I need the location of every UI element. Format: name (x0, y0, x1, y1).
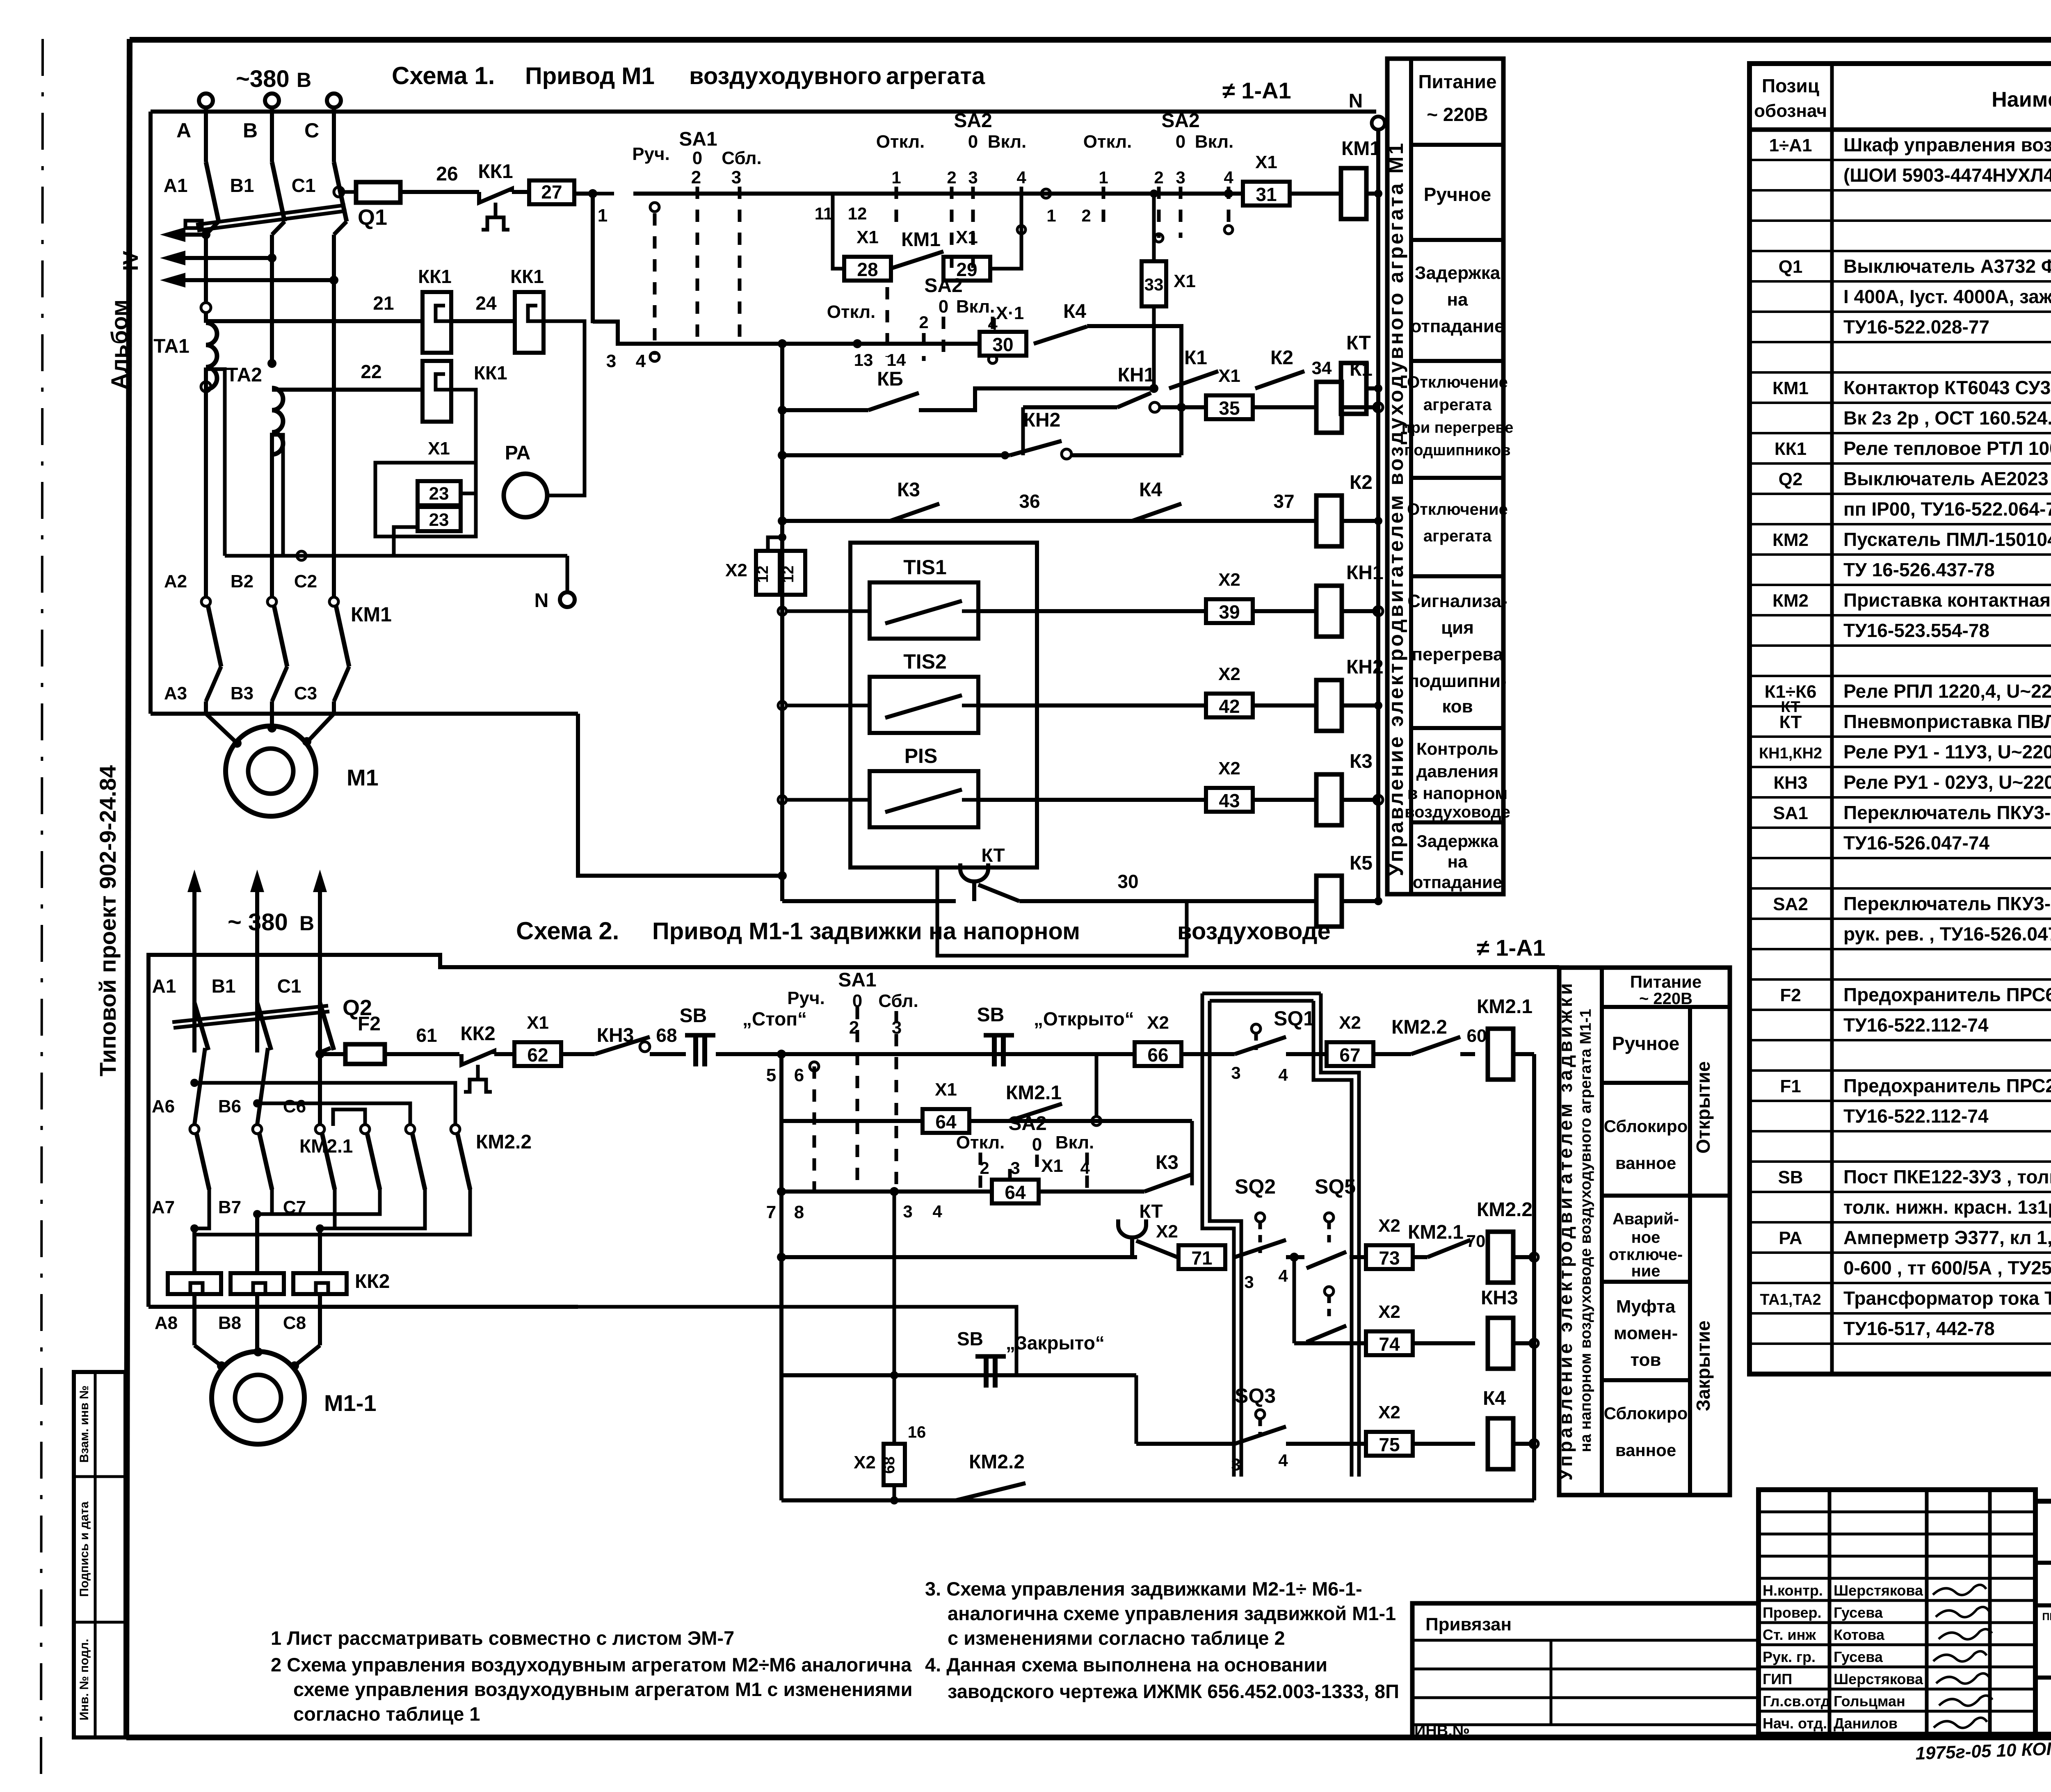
wire: feed to junction 1 (574, 192, 593, 196)
thermal heaters KK2 (168, 1273, 221, 1294)
wire: control row B (593, 322, 978, 344)
thermal heater KK1 no.1 (423, 292, 451, 353)
svg-text:Питание: Питание (1418, 71, 1496, 92)
svg-text:Гл.св.отд: Гл.св.отд (1763, 1693, 1830, 1710)
svg-text:Приставка контактная ПКЛ-: Приставка контактная ПКЛ-1104 (1843, 589, 2051, 611)
relay coil K1 (1316, 382, 1342, 433)
svg-text:3: 3 (606, 351, 616, 371)
svg-text:3: 3 (903, 1202, 912, 1221)
contact KH1 on row K1 (1150, 402, 1160, 412)
svg-text:I 400А, Iуст. 4000А, зажим: I 400А, Iуст. 4000А, зажим №2. (1843, 286, 2051, 307)
wire: schema2 row1 through SA1 (781, 1052, 1096, 1056)
terminal box X1-62 (514, 1042, 561, 1066)
svg-text:заводского чертежа ИЖМК 656.: заводского чертежа ИЖМК 656.452.003-1333… (948, 1680, 1399, 1702)
svg-text:4: 4 (932, 1202, 942, 1221)
svg-text:Инв. № подл.: Инв. № подл. (78, 1639, 91, 1720)
components table row lines (1750, 159, 2051, 161)
svg-text:А1: А1 (152, 975, 176, 997)
control branch bus vertical 1-3 (591, 194, 595, 323)
svg-text:Вкл.: Вкл. (1195, 132, 1234, 152)
svg-text:SQ1: SQ1 (1274, 1007, 1315, 1030)
svg-text:с изменениями согласно табли: с изменениями согласно таблице 2 (948, 1627, 1285, 1649)
terminal block X2-16 (884, 1444, 905, 1485)
svg-text:IV: IV (119, 251, 143, 271)
svg-text:Откл.: Откл. (876, 132, 925, 152)
junction row1-row2 vertical (1095, 1054, 1099, 1116)
svg-text:68: 68 (656, 1025, 677, 1046)
svg-text:SB: SB (680, 1005, 707, 1027)
svg-text:33: 33 (1144, 275, 1164, 294)
svg-text:1 Лист рассматривать совме: 1 Лист рассматривать совместно с листом … (271, 1627, 734, 1649)
svg-text:Пускатель ПМЛ-150104, ~220: Пускатель ПМЛ-150104, ~220В. (1843, 529, 2051, 550)
svg-text:SB: SB (957, 1328, 983, 1349)
contactor coil KM2.2 (1488, 1232, 1513, 1283)
wire: row4 KM2.2 circuit (781, 1255, 1137, 1259)
svg-text:В8: В8 (218, 1313, 241, 1333)
ammeter PA (504, 474, 547, 517)
contact K4 on row K2 (1132, 504, 1181, 521)
svg-text:ТIS1: ТIS1 (903, 556, 947, 579)
svg-text:Закрытие: Закрытие (1692, 1320, 1714, 1411)
svg-text:Отключение: Отключение (1407, 500, 1508, 518)
svg-text:КН1: КН1 (1118, 364, 1155, 386)
circuit breaker Q2 (194, 1003, 208, 1050)
relay coil K3 (1316, 774, 1342, 825)
svg-text:Х2: Х2 (1147, 1013, 1169, 1033)
svg-text:Х2: Х2 (1218, 570, 1240, 590)
contact KH3 on schema2 row1 (561, 1052, 595, 1056)
svg-text:24: 24 (475, 292, 497, 314)
svg-text:2: 2 (1154, 168, 1163, 187)
wire: row4 continue (1350, 1255, 1367, 1259)
svg-text:SQ2: SQ2 (1235, 1175, 1276, 1198)
vertical K3 riser (1190, 1121, 1194, 1185)
wire: row2 blocked circuit (781, 1119, 923, 1123)
terminal box X2-75 (1366, 1432, 1413, 1456)
svg-text:КН3: КН3 (1773, 773, 1807, 793)
junction on row A before X1-31 (1224, 189, 1233, 198)
svg-text:Открытие: Открытие (1692, 1061, 1714, 1153)
svg-text:12: 12 (754, 566, 772, 583)
svg-text:Сблокиро: Сблокиро (1604, 1116, 1688, 1136)
wire: row K2 (782, 519, 1316, 523)
terminal box X1-31 (1243, 182, 1290, 205)
svg-text:С6: С6 (283, 1096, 306, 1116)
svg-text:Х2: Х2 (1218, 664, 1240, 684)
svg-text:3. Схема управления задвижка: 3. Схема управления задвижками М2-1÷ М6-… (925, 1578, 1362, 1600)
svg-text:SA2: SA2 (1008, 1113, 1046, 1135)
svg-text:КТ: КТ (1781, 699, 1800, 716)
terminal box X2-74 (1366, 1331, 1413, 1355)
svg-text:Q1: Q1 (358, 205, 387, 230)
svg-text:Х2: Х2 (1339, 1013, 1361, 1033)
svg-text:Котова: Котова (1834, 1626, 1885, 1643)
thermal heater KK1 no.3 (423, 361, 451, 422)
wire: phase stubs from terminals (204, 107, 208, 162)
svg-text:воздуходувного: воздуходувного (689, 63, 882, 89)
svg-text:Провер.: Провер. (1763, 1604, 1822, 1621)
svg-text:КМ1: КМ1 (1772, 378, 1809, 398)
contactor coil KM1 (1341, 168, 1366, 219)
terminal box X2-42 (1206, 694, 1253, 717)
svg-text:Рук. гр.: Рук. гр. (1763, 1648, 1816, 1665)
svg-text:отпадание: отпадание (1413, 872, 1502, 892)
terminal block X1 23/23 ammeter enclosure (375, 463, 476, 536)
svg-text:А8: А8 (155, 1313, 178, 1333)
svg-text:В: В (297, 68, 311, 91)
svg-text:А1: А1 (164, 175, 188, 196)
svg-text:12: 12 (848, 204, 867, 223)
svg-text:3: 3 (1176, 168, 1185, 187)
svg-text:F2: F2 (358, 1013, 381, 1035)
function rows schema 2 (1602, 1005, 1730, 1009)
svg-text:3: 3 (1244, 1272, 1254, 1292)
svg-text:1: 1 (891, 168, 901, 187)
svg-text:ТА2: ТА2 (226, 364, 262, 386)
svg-text:С7: С7 (283, 1197, 306, 1217)
tap arrow feeder 1 (201, 230, 210, 239)
svg-text:КМ2.2: КМ2.2 (969, 1451, 1025, 1473)
relay coil K5 (1316, 876, 1342, 927)
svg-text:К5: К5 (1350, 852, 1373, 874)
svg-text:агрегата: агрегата (1423, 527, 1492, 545)
parallel branch X1-28 KM1 X1-29 (833, 194, 845, 269)
svg-text:75: 75 (1379, 1434, 1400, 1455)
svg-text:К4: К4 (1139, 479, 1162, 501)
limit switch SQ1 (1252, 1024, 1261, 1033)
svg-text:23: 23 (429, 484, 449, 504)
svg-text:РА: РА (505, 442, 530, 464)
svg-text:23: 23 (429, 510, 449, 530)
svg-text:К4: К4 (1483, 1388, 1506, 1409)
svg-text:обознач: обознач (1754, 101, 1827, 121)
current transformer TA1 (201, 303, 211, 313)
svg-text:SВ: SВ (1778, 1167, 1803, 1187)
svg-text:SA2: SA2 (1161, 110, 1199, 132)
svg-text:Схема 1.: Схема 1. (392, 62, 495, 89)
svg-text:КК2: КК2 (355, 1271, 390, 1292)
svg-text:Шерстякова: Шерстякова (1834, 1582, 1923, 1599)
svg-text:Задержка: Задержка (1415, 263, 1501, 283)
svg-text:Откл.: Откл. (827, 302, 876, 322)
svg-text:28: 28 (857, 259, 878, 280)
svg-text:К3: К3 (1350, 751, 1373, 772)
svg-text:Ручное: Ручное (1424, 184, 1491, 205)
svg-text:С2: С2 (294, 571, 317, 591)
svg-text:11: 11 (815, 204, 833, 223)
svg-text:КК1: КК1 (478, 161, 513, 183)
svg-text:Привязан: Привязан (1425, 1614, 1512, 1634)
svg-text:ков: ков (1442, 696, 1473, 717)
svg-text:35: 35 (1219, 397, 1240, 419)
svg-text:В: В (243, 119, 258, 142)
svg-text:~ 220В: ~ 220В (1639, 990, 1692, 1008)
svg-text:4: 4 (1016, 168, 1026, 187)
svg-text:Вкл.: Вкл. (988, 132, 1027, 152)
svg-text:КМ1: КМ1 (1341, 138, 1381, 160)
svg-text:Позиц: Позиц (1762, 75, 1819, 96)
svg-text:6: 6 (794, 1065, 804, 1085)
svg-text:SQ5: SQ5 (1315, 1175, 1356, 1198)
svg-text:КМ2.1: КМ2.1 (1477, 996, 1533, 1018)
svg-text:КН3: КН3 (1481, 1287, 1518, 1309)
svg-text:Нач. отд.: Нач. отд. (1763, 1715, 1827, 1732)
svg-text:„Стоп“: „Стоп“ (742, 1008, 807, 1030)
svg-text:4: 4 (636, 351, 646, 371)
svg-text:Привод М1: Привод М1 (525, 63, 655, 89)
svg-text:74: 74 (1379, 1333, 1400, 1355)
relay coil K2 (1316, 495, 1342, 546)
svg-text:0: 0 (939, 297, 948, 317)
svg-text:КН2: КН2 (1346, 656, 1384, 678)
svg-text:КМ2.1: КМ2.1 (1408, 1221, 1464, 1243)
svg-text:0: 0 (692, 148, 702, 168)
terminal box 27 (529, 180, 574, 204)
svg-text:2: 2 (1081, 206, 1091, 225)
svg-text:К3: К3 (1156, 1152, 1179, 1173)
svg-text:Амперметр Э377, кл 1,0: Амперметр Э377, кл 1,0 предел измер. (1843, 1227, 2051, 1248)
wire: measuring loop to ammeter (544, 321, 585, 495)
svg-text:Реле РПЛ 1220,4, U~220В, Т: Реле РПЛ 1220,4, U~220В, ТУ16-523.554-78 (1843, 680, 2051, 702)
svg-text:ТIS2: ТIS2 (903, 650, 947, 673)
wire: row B to dropper (1087, 326, 1181, 455)
svg-text:пп IР00, ТУ16-522.064-75.: пп IР00, ТУ16-522.064-75. (1843, 498, 2051, 520)
svg-text:X1: X1 (1041, 1156, 1063, 1176)
svg-text:В2: В2 (231, 571, 254, 591)
svg-text:Реле РУ1 - 11У3, U~220В,: Реле РУ1 - 11У3, U~220В, ТУ16-523.538-77 (1843, 741, 2051, 762)
svg-text:SA1: SA1 (679, 128, 717, 150)
svg-text:В1: В1 (212, 975, 236, 997)
svg-text:толк. нижн. красн. 1з1р ,: толк. нижн. красн. 1з1р , ТУ16-526.216-7… (1843, 1196, 2051, 1218)
svg-text:В7: В7 (218, 1197, 241, 1217)
svg-text:1÷А1: 1÷А1 (1769, 135, 1812, 155)
svg-text:ПРОИЗВОДСТВЕННО-ВСПОМОГАТЕЛЬНО: ПРОИЗВОДСТВЕННО-ВСПОМОГАТЕЛЬНОЕ ЗДАНИЕ С (2042, 1611, 2051, 1623)
svg-text:А: А (176, 119, 191, 142)
N bus schema 1 (1376, 130, 1380, 901)
relay coil K4 schema2 (1488, 1418, 1513, 1469)
svg-text:Трансформатор тока ТК20-0: Трансформатор тока ТК20-0,5У3, I 600/5А (1843, 1288, 2051, 1309)
svg-text:перегрева: перегрева (1411, 644, 1503, 664)
svg-text:„Закрыто“: „Закрыто“ (1006, 1332, 1105, 1354)
phase feeders with arrows schema 2 (192, 892, 196, 1052)
svg-text:X1: X1 (1218, 366, 1240, 386)
svg-text:64: 64 (935, 1111, 957, 1132)
function table schema 1 box (1387, 59, 1503, 894)
junction 1 end of SA2 group1 (1041, 189, 1051, 198)
svg-text:ТУ16-522.112-74: ТУ16-522.112-74 (1843, 1014, 1989, 1036)
svg-text:Руч.: Руч. (787, 988, 825, 1008)
svg-text:КМ2.2: КМ2.2 (476, 1131, 532, 1153)
relay coil KH2 (1316, 680, 1342, 731)
function rows schema 1 (1411, 143, 1503, 147)
svg-text:0-600 , тт 600/5А , ТУ25-: 0-600 , тт 600/5А , ТУ25-04- 1058-76 (1843, 1257, 2051, 1278)
svg-text:2: 2 (947, 168, 956, 187)
svg-text:А2: А2 (164, 571, 187, 591)
svg-text:F1: F1 (1780, 1076, 1801, 1096)
svg-text:ИНВ.№: ИНВ.№ (1414, 1722, 1470, 1739)
svg-text:Предохранитель ПРС6У3-П, Iп: Предохранитель ПРС6У3-П, Iпл. Вст 2А, (1843, 984, 2051, 1005)
svg-text:отпадание: отпадание (1411, 316, 1505, 336)
sheet left trim dash-dot line (41, 39, 43, 1780)
thermal heater KK1 no.2 (515, 292, 544, 353)
svg-text:А7: А7 (152, 1197, 175, 1217)
svg-text:К3: К3 (897, 479, 920, 501)
svg-text:2: 2 (919, 313, 928, 332)
svg-text:66: 66 (1147, 1044, 1168, 1066)
terminal box X2-66 (1135, 1042, 1181, 1066)
svg-text:К1: К1 (1350, 358, 1373, 380)
svg-text:36: 36 (1019, 491, 1040, 512)
relay coil KH3 schema2 (1488, 1318, 1513, 1369)
components table header (1750, 128, 2051, 132)
svg-text:ТУ16-522.028-77: ТУ16-522.028-77 (1843, 316, 1989, 338)
svg-text:Q1: Q1 (1779, 257, 1803, 277)
svg-text:КМ2: КМ2 (1772, 591, 1809, 611)
svg-text:агрегата: агрегата (886, 63, 985, 89)
contact KM2.2 bottom (956, 1483, 1025, 1500)
valve linkage double line left (1202, 993, 1234, 1477)
svg-text:Типовой проект 902-9-24.84: Типовой проект 902-9-24.84 (95, 765, 121, 1077)
terminal box X1-64 row3 (992, 1180, 1039, 1203)
svg-text:К1: К1 (1184, 347, 1207, 369)
function table schema 2 box (1559, 968, 1730, 1495)
wire: phases down to KM2 contacts (194, 1048, 205, 1125)
svg-text:0: 0 (968, 132, 978, 152)
valve linkage double line top (1202, 992, 1321, 995)
N terminal schema 1 (1372, 116, 1385, 130)
svg-text:КН1,КН2: КН1,КН2 (1759, 745, 1822, 762)
svg-text:37: 37 (1273, 491, 1294, 512)
attachment table (1412, 1603, 1759, 1737)
svg-text:Откл.: Откл. (1083, 132, 1132, 152)
terminal box X2-71 (1179, 1245, 1225, 1269)
svg-text:4: 4 (1278, 1266, 1288, 1285)
fuse F1 schema1 (356, 182, 400, 203)
terminal box X2-73 (1366, 1245, 1413, 1269)
timer contact KT schema2 (1118, 1225, 1146, 1237)
svg-text:34: 34 (1312, 358, 1332, 378)
svg-text:С3: С3 (294, 683, 317, 703)
svg-text:схеме управления воздуходувн: схеме управления воздуходувным агрегатом… (293, 1678, 913, 1700)
svg-text:Х2: Х2 (1218, 758, 1240, 778)
svg-text:Данилов: Данилов (1834, 1715, 1898, 1732)
svg-text:КН2: КН2 (1023, 409, 1061, 431)
svg-text:43: 43 (1219, 790, 1240, 811)
svg-text:(ШОИ 5903-4474НУХЛ4): (ШОИ 5903-4474НУХЛ4) (1843, 164, 2051, 186)
wire: reversing links (194, 1083, 455, 1125)
motor M1 (226, 726, 316, 816)
timer coil KT (1341, 363, 1366, 414)
svg-text:С: С (304, 119, 319, 142)
svg-text:X1: X1 (527, 1013, 549, 1033)
svg-text:В: В (299, 912, 314, 935)
wire: KH2 bypass row (782, 453, 1010, 457)
svg-text:КК1: КК1 (510, 266, 544, 287)
wire: row K1 coil circuit (1023, 405, 1117, 409)
svg-text:Откл.: Откл. (956, 1132, 1005, 1153)
svg-text:Выключатель А3732 ФУ3, U: Выключатель А3732 ФУ3, U~380В, (1843, 256, 2051, 277)
svg-text:Сблокиро: Сблокиро (1604, 1404, 1688, 1423)
right bus schema2 (1532, 1054, 1536, 1500)
svg-text:Задержка: Задержка (1417, 831, 1499, 851)
svg-text:КК2: КК2 (460, 1023, 495, 1045)
svg-text:7: 7 (766, 1202, 776, 1222)
svg-text:в напорном: в напорном (1407, 783, 1507, 803)
wire: TA secondary returns (206, 369, 225, 556)
svg-text:на напорном воздуховоде возд: на напорном воздуховоде воздуходувного а… (1577, 1009, 1594, 1452)
svg-text:Шкаф управления воздуходувным: Шкаф управления воздуходувным агрегатом … (1843, 134, 2051, 155)
push button SB Closed (781, 1373, 1136, 1377)
svg-text:Реле РУ1 - 02У3, U~220В, Т: Реле РУ1 - 02У3, U~220В, ТУ16-523.538-77 (1843, 772, 2051, 793)
svg-text:А3: А3 (164, 683, 187, 703)
wire 24 to heater KK1 no.2 (451, 319, 515, 323)
svg-text:Пост ПКЕ122-3У3 , толк. ве: Пост ПКЕ122-3У3 , толк. верхн. 1з1р, (1843, 1166, 2051, 1187)
svg-text:Вкл.: Вкл. (1055, 1132, 1094, 1153)
svg-text:ТУ16-526.047-74: ТУ16-526.047-74 (1843, 832, 1989, 854)
drawing frame bottom border (126, 1735, 2051, 1740)
svg-text:~ 220В: ~ 220В (1427, 104, 1488, 125)
svg-text:~380: ~380 (236, 66, 290, 92)
svg-text:SQ3: SQ3 (1235, 1384, 1276, 1407)
svg-text:68: 68 (881, 1456, 898, 1474)
svg-text:КТ: КТ (1139, 1201, 1163, 1222)
svg-text:С1: С1 (277, 975, 301, 997)
svg-text:Контактор КТ6043 СУ3,: Контактор КТ6043 СУ3, U~220В, (1843, 377, 2051, 398)
svg-text:К4: К4 (1063, 301, 1086, 322)
stamp signature table (1759, 1490, 2035, 1734)
valve linkage double line right (1321, 993, 1359, 1477)
svg-text:Муфта: Муфта (1616, 1297, 1676, 1317)
contact KM2.1 row2 (1009, 1104, 1062, 1121)
svg-text:61: 61 (416, 1025, 437, 1046)
neutral N terminal bottom (566, 556, 569, 591)
contact K2 on KT row (1255, 371, 1304, 388)
contact K3 on row K2 (890, 504, 939, 521)
sensor block boundary (850, 543, 1037, 867)
svg-text:F2: F2 (1780, 985, 1801, 1005)
svg-text:1: 1 (1099, 168, 1108, 187)
schema 1 power box bottom (151, 712, 578, 716)
svg-text:КМ2.2: КМ2.2 (1477, 1199, 1533, 1221)
svg-text:Гольцман: Гольцман (1834, 1693, 1905, 1710)
svg-text:Вкл.: Вкл. (956, 297, 995, 317)
limit switch SQ3 (1256, 1410, 1265, 1419)
svg-text:Х1: Х1 (428, 438, 450, 459)
svg-text:ное: ное (1631, 1228, 1660, 1246)
terminal box X1-64 row2 (923, 1109, 969, 1133)
wire: heater outputs to motor (192, 1294, 196, 1345)
svg-text:КМ2.2: КМ2.2 (1391, 1016, 1447, 1038)
svg-text:Х2: Х2 (1378, 1302, 1400, 1322)
svg-text:Q2: Q2 (1779, 469, 1803, 489)
svg-text:момен-: момен- (1614, 1323, 1678, 1343)
svg-text:В3: В3 (231, 683, 254, 703)
svg-text:SА2: SА2 (1773, 894, 1808, 914)
svg-text:Сигнализа-: Сигнализа- (1407, 591, 1507, 611)
svg-text:3: 3 (1231, 1063, 1240, 1082)
push button SB Open (992, 1035, 997, 1066)
contact K4 on row B (1034, 326, 1087, 344)
svg-text:Х2: Х2 (854, 1452, 876, 1472)
svg-text:М1-1: М1-1 (324, 1390, 377, 1416)
svg-text:73: 73 (1379, 1247, 1400, 1269)
svg-text:В1: В1 (230, 175, 254, 196)
drawing frame top border (130, 37, 2051, 43)
svg-text:4: 4 (1278, 1451, 1288, 1470)
svg-text:ТУ16-523.554-78: ТУ16-523.554-78 (1843, 620, 1989, 641)
svg-text:КБ: КБ (877, 368, 903, 390)
current transformer TA2 (267, 359, 276, 368)
